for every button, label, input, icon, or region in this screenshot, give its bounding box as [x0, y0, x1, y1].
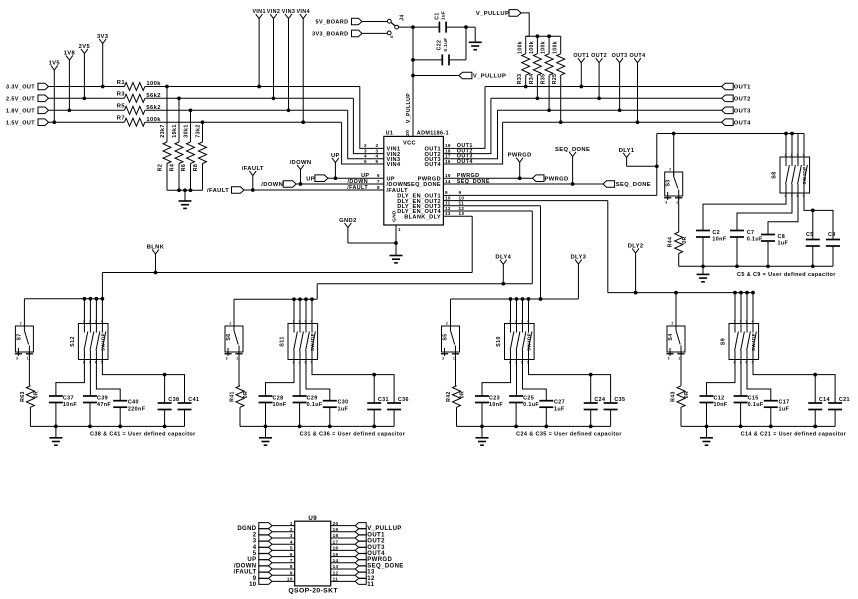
wire GND2 [348, 242, 396, 244]
wire C39 bottom [89, 403, 91, 427]
wire R2 bottom [166, 164, 168, 191]
pin 1 wire [272, 525, 295, 527]
power flag VIN1 [258, 19, 260, 87]
svg-text:3: 3 [16, 357, 18, 361]
svg-text:15: 15 [333, 552, 339, 557]
svg-text:9: 9 [253, 576, 257, 582]
svg-text:8: 8 [290, 564, 293, 569]
svg-text:C40: C40 [128, 400, 139, 406]
connector /DOWN [283, 181, 296, 188]
capacitor C25 0.1uF [509, 395, 523, 397]
junction /DOWN [299, 182, 303, 186]
capacitor C36 [387, 402, 401, 404]
svg-text:0.1uF: 0.1uF [307, 402, 323, 408]
capacitor C22 0.1uF [441, 54, 443, 65]
pin 10 connector [259, 578, 272, 584]
junction S9 col2 [739, 291, 743, 295]
svg-text:2: 2 [671, 322, 673, 326]
svg-text:1: 1 [678, 357, 680, 361]
switch S11 (SW4DP) [280, 319, 318, 364]
svg-text:13: 13 [333, 564, 339, 569]
svg-text:C27: C27 [554, 400, 565, 406]
svg-text:/FAULT: /FAULT [242, 166, 264, 172]
svg-text:1.5V_OUT: 1.5V_OUT [6, 120, 35, 126]
pin 13 wire [331, 568, 355, 570]
svg-text:2: 2 [446, 322, 448, 326]
wire col3 to C17 [747, 360, 771, 401]
resistor R4 19k1 [175, 142, 183, 163]
flag OUT2 [598, 63, 600, 99]
wire col1 to C28 [266, 360, 295, 397]
junction OUT4 flag [636, 120, 640, 124]
svg-text:R41: R41 [230, 391, 236, 402]
junction rail R34 [536, 34, 540, 38]
connector 3V3_BOARD [352, 30, 363, 37]
junction C2 bus [701, 264, 705, 268]
wire col1 to C23 [482, 360, 511, 397]
svg-text:R4: R4 [169, 164, 175, 172]
wire C17 bottom [770, 407, 772, 426]
wire C15 bottom [740, 403, 742, 427]
wire block bottom bus [240, 425, 394, 427]
connector V_PULLUP top [509, 10, 521, 17]
svg-text:30k1: 30k1 [183, 124, 189, 138]
junction bus Cd [163, 425, 167, 429]
connector 2.5V_OUT [38, 95, 49, 102]
connector PWRGD [532, 175, 544, 182]
svg-text:S10: S10 [496, 336, 502, 347]
junction S10 col4 [527, 297, 531, 301]
ground block [706, 426, 708, 437]
wire OUT3 riser [443, 110, 497, 159]
svg-text:3: 3 [226, 357, 228, 361]
svg-text:UP: UP [306, 176, 315, 182]
pin 11 wire [331, 580, 355, 582]
svg-text:4: 4 [311, 319, 313, 323]
svg-text:C9: C9 [828, 232, 836, 238]
wire col2 to C15 [740, 360, 742, 397]
wire S11 col4 top [311, 299, 313, 323]
wire S9 col2 top [740, 293, 742, 324]
svg-text:14: 14 [333, 558, 339, 563]
junction bus Cd [589, 425, 593, 429]
svg-text:C25: C25 [523, 395, 534, 401]
resistor R42 0R [453, 386, 461, 408]
wire C1 right [446, 26, 475, 28]
connector UP [315, 175, 328, 182]
svg-text:VIN3: VIN3 [282, 9, 296, 15]
svg-text:10nF: 10nF [63, 402, 77, 408]
junction bus Ca [54, 425, 58, 429]
junction V_PULLUP tap [411, 74, 415, 78]
svg-text:10nF: 10nF [714, 402, 728, 408]
wire R35 top [548, 36, 550, 54]
svg-text:C39: C39 [97, 395, 108, 401]
svg-text:S3: S3 [666, 179, 672, 186]
wire BLNK drop [471, 216, 473, 272]
svg-text:QSOP-20-SKT: QSOP-20-SKT [288, 588, 338, 595]
power flag VIN4 [302, 19, 304, 123]
wire C22 right [449, 59, 466, 61]
svg-text:C12: C12 [714, 395, 725, 401]
junction bus Ca [480, 425, 484, 429]
svg-text:/DOWN: /DOWN [261, 182, 283, 188]
svg-text:3: 3 [442, 357, 444, 361]
flag OUT3 [619, 63, 621, 111]
wire S8 col1 to C2 [703, 193, 786, 231]
wire col3 to C30 [306, 360, 330, 401]
svg-text:R44: R44 [668, 237, 674, 248]
wire col4 to C41 [102, 360, 184, 404]
connector 5V_BOARD [352, 18, 363, 25]
wire R41 bottom [239, 407, 241, 426]
connector SEQ_DONE [603, 181, 615, 188]
wire C36 bottom [393, 410, 395, 427]
pin 11 connector [355, 578, 366, 584]
junction R6 top [189, 108, 193, 112]
svg-text:0R: 0R [682, 236, 688, 243]
wire DLY_EN_OUT3 [443, 205, 540, 207]
wire S12 col1 top [83, 299, 85, 324]
svg-text:BLANK_DLY: BLANK_DLY [404, 214, 441, 220]
svg-text:OUT2: OUT2 [734, 97, 751, 103]
wire S4 pin1 to R43 [680, 352, 682, 386]
pin 7 wire [272, 562, 295, 564]
pin 7 connector [259, 560, 272, 566]
svg-text:SW4DP: SW4DP [802, 166, 807, 184]
svg-text:UP: UP [331, 153, 340, 159]
svg-text:SW4DP: SW4DP [310, 333, 315, 351]
svg-text:10nF: 10nF [489, 402, 503, 408]
wire R4 bottom [178, 164, 180, 191]
ground divider [184, 190, 186, 201]
svg-text:16: 16 [333, 546, 339, 551]
wire R25 bottom [560, 75, 562, 122]
flag BLNK [155, 254, 157, 273]
svg-text:VIN4: VIN4 [296, 9, 310, 15]
svg-text:5V_BOARD: 5V_BOARD [316, 20, 349, 26]
capacitor C29 0.1uF [293, 395, 307, 397]
wire S3 drop [673, 134, 675, 177]
wire J4 to C1 [399, 26, 440, 28]
svg-text:6: 6 [377, 173, 380, 178]
wire col3 to C27 [523, 360, 547, 401]
wire C31 top [373, 375, 375, 403]
wire 1.8V row [49, 109, 125, 111]
svg-text:19: 19 [333, 527, 339, 532]
svg-text:VIN1: VIN1 [252, 9, 266, 15]
junction bus Cb [739, 425, 743, 429]
svg-text:VIN4: VIN4 [387, 162, 401, 168]
svg-text:3: 3 [95, 319, 97, 323]
svg-text:20: 20 [405, 130, 411, 136]
svg-text:SEQ_DONE: SEQ_DONE [457, 179, 490, 185]
svg-text:3: 3 [746, 319, 748, 323]
junction 2V5 [83, 96, 87, 100]
wire C30 bottom [329, 407, 331, 426]
flag DLY1 [626, 158, 628, 167]
svg-text:C37: C37 [63, 395, 74, 401]
junction R33 [524, 85, 528, 89]
switch S10 (SW4DP) [496, 319, 534, 364]
junction R35 [547, 108, 551, 112]
wire C37 bottom [55, 403, 57, 427]
svg-text:C14 & C21 = User defined capac: C14 & C21 = User defined capacitor [741, 431, 847, 437]
capacitor C14 [808, 402, 822, 404]
svg-text:S9: S9 [721, 338, 727, 345]
junction S8 rail [790, 132, 794, 136]
resistor R2 23k7 [163, 142, 171, 163]
junction OUT2 flag [597, 96, 601, 100]
svg-text:C7: C7 [747, 230, 755, 236]
svg-text:SW4DP: SW4DP [751, 333, 756, 351]
wire U1 pin1 gnd [395, 225, 397, 256]
svg-text:B: B [390, 35, 394, 38]
wire DLY1 flag link [627, 165, 657, 167]
wire divider ground bus [167, 189, 203, 191]
svg-text:C22: C22 [437, 40, 443, 51]
wire S12 col4 top [101, 299, 103, 324]
svg-text:C29: C29 [307, 395, 318, 401]
svg-text:OUT3: OUT3 [367, 545, 385, 551]
capacitor C7 0.1uF [730, 230, 744, 232]
svg-text:100k: 100k [552, 41, 558, 54]
svg-text:/FAULT: /FAULT [207, 188, 229, 194]
wire C24 top [590, 375, 592, 403]
svg-text:23k7: 23k7 [160, 124, 166, 138]
wire DLY4 drop [531, 211, 533, 284]
junction R25 [559, 120, 563, 124]
wire S10 col4 top [528, 299, 530, 324]
svg-text:2.5V_OUT: 2.5V_OUT [6, 96, 35, 102]
svg-text:OUT1: OUT1 [734, 85, 751, 91]
wire col2 to C39 [89, 360, 91, 397]
svg-text:1: 1 [236, 357, 238, 361]
wire R63 bottom [29, 407, 31, 426]
svg-text:3V3: 3V3 [97, 34, 109, 40]
wire DLY4 to bus [316, 284, 318, 300]
wire S8 col4 top [803, 134, 805, 158]
wire block bus S10 [451, 298, 579, 300]
pin 5 wire [272, 549, 295, 551]
junction 3V3 [101, 85, 105, 89]
svg-text:2V5: 2V5 [79, 44, 91, 50]
svg-text:10nF: 10nF [273, 402, 287, 408]
svg-text:1V5: 1V5 [49, 60, 61, 66]
svg-text:R34: R34 [529, 74, 535, 85]
wire S12 col2 top [89, 299, 91, 324]
svg-text:2: 2 [229, 322, 231, 326]
junction S3 drop [672, 132, 676, 136]
resistor R35 100k [545, 54, 553, 76]
wire R8 bottom [202, 164, 204, 191]
wire S6 pin1 to R41 [238, 352, 240, 386]
wire OUT2 riser [443, 98, 491, 153]
ground J4 [469, 41, 482, 43]
svg-text:1: 1 [453, 357, 455, 361]
svg-text:2: 2 [515, 319, 517, 323]
svg-text:14: 14 [445, 179, 451, 184]
junction gnd bus [183, 188, 187, 192]
junction S12 col1 [83, 297, 87, 301]
junction DLY1 [655, 164, 659, 168]
junction VIN3 [287, 108, 291, 112]
svg-text:5: 5 [364, 159, 367, 164]
ground cap bank [702, 266, 704, 274]
wire S8 col1 top [785, 134, 787, 158]
pin 9 wire [272, 574, 295, 576]
wire block bottom bus [681, 425, 835, 427]
svg-text:VCC: VCC [403, 140, 416, 146]
svg-text:OUT1: OUT1 [573, 53, 589, 59]
junction DLY2 [634, 291, 638, 295]
junction VIN2 [272, 96, 276, 100]
svg-text:7: 7 [290, 558, 293, 563]
resistor R34 100k [533, 54, 541, 76]
wire S3 pin1 to R44 [678, 196, 680, 232]
junction C8 bus [766, 264, 770, 268]
svg-text:1: 1 [676, 201, 678, 205]
svg-text:V_PULLUP: V_PULLUP [367, 526, 401, 532]
svg-text:U1: U1 [386, 131, 394, 137]
junction S4 drop [674, 291, 678, 295]
svg-text:OUT3: OUT3 [612, 53, 628, 59]
junction /FAULT [251, 188, 255, 192]
junction 1V8 [68, 108, 72, 112]
wire VIN1 feed [360, 87, 384, 149]
svg-text:R63: R63 [20, 391, 26, 402]
wire R34 bottom [536, 75, 538, 98]
svg-text:R3: R3 [117, 92, 126, 98]
pin 18 wire [331, 537, 355, 539]
pin 9 connector [259, 572, 272, 578]
svg-text:/FAULT: /FAULT [347, 185, 368, 191]
capacitor C35 [604, 402, 618, 404]
wire C31 bottom [373, 410, 375, 427]
junction C5 top [811, 209, 815, 213]
capacitor C24 [584, 402, 598, 404]
junction C24 top [589, 373, 593, 377]
pin 20 connector [355, 523, 366, 529]
wire PWRGD [443, 177, 532, 179]
wire pullup rail [526, 35, 561, 37]
svg-text:5: 5 [253, 551, 257, 557]
pin 3 wire [272, 537, 295, 539]
junction VIN4 [301, 120, 305, 124]
svg-text:OUT4: OUT4 [425, 162, 442, 168]
wire S12 col3 top [95, 299, 97, 324]
svg-text:100k: 100k [517, 41, 523, 54]
junction OUT3 flag [618, 108, 622, 112]
wire V_PULLUP to rail [521, 13, 529, 36]
switch S4 [666, 322, 685, 361]
svg-text:1: 1 [398, 227, 401, 232]
junction S11 col2 [298, 297, 302, 301]
resistor R5 56k2 [124, 106, 145, 114]
wire DLY2 rail [608, 292, 753, 294]
svg-text:0.1uF: 0.1uF [747, 237, 763, 243]
wire S5 drop [450, 299, 452, 326]
junction bus Cc [544, 425, 548, 429]
pin 16 wire [331, 549, 355, 551]
connector OUT2 [722, 95, 734, 102]
wire VIN4 feed [342, 122, 384, 164]
capacitor C30 1uF [323, 400, 337, 402]
wire 1.5V row [49, 121, 125, 123]
wire block bus S11 [234, 298, 317, 300]
junction C14 top [813, 373, 817, 377]
connector OUT4 [722, 119, 734, 126]
pin 16 connector [355, 547, 366, 553]
capacitor C15 0.1uF [734, 395, 748, 397]
pin 17 wire [331, 543, 355, 545]
connector OUT3 [722, 107, 734, 114]
junction C22 left [411, 58, 415, 62]
resistor R44 0R [675, 232, 683, 253]
junction bus Cb [514, 425, 518, 429]
svg-text:8: 8 [377, 185, 380, 190]
svg-text:BLNK: BLNK [147, 244, 165, 250]
svg-text:C35: C35 [614, 397, 625, 403]
wire C9 bottom [832, 246, 834, 266]
svg-text:20: 20 [333, 521, 339, 526]
wire cap bank bus [679, 265, 833, 267]
wire UP [328, 177, 384, 179]
svg-text:R2: R2 [157, 164, 163, 172]
wire S11 col3 top [305, 299, 307, 323]
svg-text:3: 3 [305, 319, 307, 323]
wire BLNK to bus [101, 273, 103, 299]
wire C38 bottom [164, 410, 166, 427]
wire col2 to C29 [299, 360, 301, 397]
capacitor C38 [158, 402, 172, 404]
svg-text:1: 1 [290, 521, 293, 526]
svg-text:C41: C41 [188, 397, 199, 403]
wire col2 to C25 [516, 360, 518, 397]
junction R4 bus [177, 188, 181, 192]
pin 14 connector [355, 560, 366, 566]
svg-text:4: 4 [253, 545, 257, 551]
svg-text:C36: C36 [398, 397, 409, 403]
capacitor C39 47nF [83, 395, 97, 397]
svg-text:R33: R33 [517, 74, 523, 85]
wire col3 to C40 [96, 360, 120, 401]
connector OUT1 [722, 83, 734, 90]
svg-text:PWRGD: PWRGD [508, 153, 532, 159]
power flag 3V3 [102, 44, 104, 87]
svg-text:OUT3: OUT3 [734, 109, 751, 115]
wire col4 to C35 [529, 360, 611, 404]
capacitor C23 10nF [475, 395, 489, 397]
svg-text:2: 2 [290, 527, 293, 532]
svg-text:OUT2: OUT2 [367, 539, 385, 545]
svg-text:19k1: 19k1 [172, 124, 178, 138]
wire DLY_EN_OUT2 [443, 200, 607, 202]
junction C38 top [163, 373, 167, 377]
svg-text:13: 13 [367, 570, 375, 576]
switch S9 (SW4DP) [721, 319, 759, 364]
junction S11 col4 [310, 297, 314, 301]
flag DLY4 [502, 264, 504, 283]
svg-text:/FAULT: /FAULT [234, 570, 257, 576]
svg-text:R6: R6 [181, 164, 187, 172]
wire R6 bottom [190, 164, 192, 191]
resistor R25 100k [557, 54, 565, 76]
wire S9 col4 top [752, 293, 754, 324]
connector 3.3V_OUT [38, 83, 49, 90]
pin 4 connector [259, 541, 272, 547]
ground block [55, 426, 57, 437]
